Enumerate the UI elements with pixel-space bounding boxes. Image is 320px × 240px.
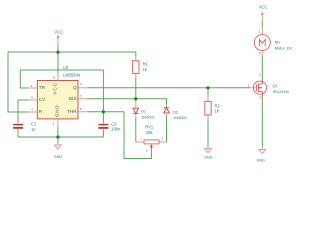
svg-text:6: 6 — [80, 107, 82, 111]
svg-text:7: 7 — [80, 94, 82, 98]
svg-text:2: 2 — [259, 51, 261, 55]
ground GND under R2 — [204, 147, 213, 160]
svg-text:10k: 10k — [146, 130, 154, 135]
svg-text:DIS: DIS — [69, 96, 77, 101]
potentiometer RV1 10k — [136, 124, 167, 152]
pin 3 Q — [78, 87, 88, 89]
wire VCC rail top-left — [8, 51, 136, 53]
motor M1 Motor_DC — [254, 28, 293, 56]
svg-text:C1: C1 — [31, 121, 37, 126]
svg-text:2: 2 — [31, 84, 33, 88]
svg-text:Q1: Q1 — [272, 83, 278, 88]
junction VCC rail — [56, 51, 59, 54]
svg-text:GND: GND — [204, 156, 213, 160]
svg-text:8: 8 — [53, 76, 55, 80]
svg-text:RV1: RV1 — [145, 124, 154, 129]
pin 2 TR — [28, 87, 37, 89]
svg-text:1N4001: 1N4001 — [173, 115, 188, 120]
pin 8 VCC — [57, 73, 59, 81]
svg-text:Motor_DC: Motor_DC — [275, 46, 293, 51]
svg-text:R1: R1 — [143, 62, 149, 67]
wire C2 bottom to GND rail — [102, 130, 104, 137]
svg-text:GND: GND — [54, 155, 63, 159]
junction DIS R1 D1 — [134, 97, 137, 100]
svg-text:100n: 100n — [111, 127, 121, 132]
svg-text:2: 2 — [259, 73, 261, 77]
resistor R1 — [133, 57, 149, 78]
svg-text:M1: M1 — [275, 40, 281, 45]
svg-text:3: 3 — [259, 95, 261, 99]
svg-text:Q: Q — [73, 85, 77, 90]
junction R2 gate — [206, 86, 209, 89]
wire right VCC to motor — [261, 21, 263, 28]
capacitor C2 — [98, 122, 121, 132]
svg-text:1: 1 — [259, 29, 261, 33]
pin 4 R — [28, 111, 37, 113]
power VCC right — [259, 4, 268, 21]
wire VCC symbol to IC VCC pin — [57, 46, 59, 73]
svg-text:VCC: VCC — [259, 4, 268, 9]
svg-text:GND: GND — [54, 105, 59, 118]
wire C1 bottom to rail — [17, 130, 19, 137]
transistor Q1 IRLZ44N — [248, 73, 289, 100]
wire R1 top lead — [135, 52, 137, 57]
junction THR node — [102, 110, 105, 113]
wire Q1 source to GND — [261, 97, 263, 147]
ground GND middle — [54, 144, 63, 160]
svg-text:1: 1 — [53, 122, 55, 126]
wire R1 bottom to DIS node — [135, 78, 137, 99]
svg-text:D1: D1 — [141, 109, 147, 114]
svg-text:3: 3 — [80, 82, 82, 86]
svg-text:5: 5 — [31, 96, 33, 100]
junction GND rail — [56, 135, 59, 138]
ground GND under Q1 — [256, 147, 265, 163]
wire D2 bottom to RV1 right — [166, 117, 168, 143]
wire CV to C1 — [18, 100, 28, 122]
svg-text:TR: TR — [39, 85, 46, 90]
wire R2 top lead — [207, 88, 209, 97]
wire motor to Q1 drain — [261, 56, 263, 82]
svg-text:1: 1 — [140, 137, 142, 141]
wire IC GND pin to rail — [57, 127, 59, 144]
svg-text:THR: THR — [67, 109, 77, 114]
svg-text:1n: 1n — [31, 127, 36, 132]
wire Q output to gate — [88, 87, 251, 89]
svg-text:1N4001: 1N4001 — [141, 114, 156, 119]
svg-text:U3: U3 — [63, 65, 69, 70]
diode D1 1N4001 — [133, 101, 156, 119]
svg-text:VCC: VCC — [54, 29, 63, 34]
pin 6 THR — [78, 111, 88, 113]
wire left drop to R pin — [8, 52, 28, 112]
svg-text:R: R — [39, 109, 43, 114]
wire DIS row to D1/D2 — [88, 99, 167, 105]
timer IC U3 LM555xN — [37, 65, 80, 119]
svg-text:D2: D2 — [173, 109, 179, 114]
svg-text:2: 2 — [146, 148, 148, 152]
resistor R2 — [205, 97, 221, 119]
wire TR loop to THR node — [20, 70, 103, 122]
capacitor C1 — [13, 121, 37, 131]
svg-text:3: 3 — [161, 137, 163, 141]
svg-text:4: 4 — [31, 108, 33, 112]
pin 7 DIS — [78, 98, 88, 100]
wire GND rail bottom — [18, 136, 103, 138]
wire D1 top — [135, 99, 137, 101]
svg-text:GND: GND — [256, 159, 265, 163]
wire R2 bottom to GND — [207, 119, 209, 147]
svg-text:VCC: VCC — [53, 82, 58, 95]
svg-text:CV: CV — [39, 97, 46, 102]
pin 5 CV — [28, 99, 37, 101]
power VCC left — [54, 29, 63, 46]
svg-text:LM555xN: LM555xN — [63, 72, 81, 77]
svg-text:IRLZ44N: IRLZ44N — [273, 89, 289, 94]
wire THR to RV1 wiper — [88, 112, 152, 159]
pin 1 GND — [57, 119, 59, 127]
diode D2 1N4001 — [164, 105, 188, 120]
svg-text:1: 1 — [248, 84, 250, 88]
wire D1 bottom to RV1 left — [135, 118, 137, 143]
